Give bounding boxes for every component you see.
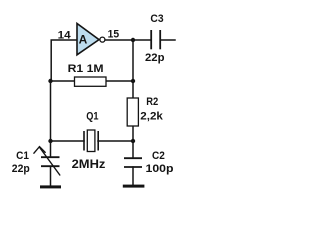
ground under C1: [40, 185, 61, 188]
wire right rail crystal node to C2 top plate: [132, 141, 134, 158]
svg-text:14: 14: [58, 30, 72, 42]
node dot output / C3 row: [131, 38, 135, 42]
inverter output bubble: [100, 37, 105, 42]
svg-text:15: 15: [108, 29, 120, 41]
svg-text:100p: 100p: [146, 163, 174, 175]
capacitor C1 plates (trimmer): [41, 157, 60, 166]
resistor R2 body: [127, 98, 138, 126]
wire C3 right plate to open end: [161, 39, 176, 41]
resistor R1 body: [75, 77, 107, 86]
svg-text:Q1: Q1: [86, 111, 98, 123]
svg-text:2MHz: 2MHz: [72, 157, 106, 171]
wire feedback R1 row (left rail to right rail): [51, 80, 134, 82]
svg-text:2,2k: 2,2k: [140, 111, 164, 123]
wire input top-left from left rail corner to inverter input: [51, 40, 77, 81]
wire C1 bottom stub to ground: [50, 167, 52, 186]
wire crystal row left (left rail to crystal left plate): [51, 140, 85, 142]
svg-text:A: A: [79, 33, 88, 47]
op-amp U1 inverter triangle: [77, 24, 105, 55]
wire right rail R2 bottom to crystal node: [132, 126, 134, 141]
svg-text:R2: R2: [146, 96, 158, 108]
svg-text:22p: 22p: [12, 163, 30, 175]
wire left rail lower (crystal node down to C1 top plate): [50, 141, 52, 157]
node dot left rail / R1: [48, 79, 52, 83]
capacitor C2 plates: [124, 158, 142, 167]
node dot right rail / R1: [131, 79, 135, 83]
svg-text:C2: C2: [152, 150, 165, 162]
crystal Q1: [84, 130, 98, 152]
ground under C2: [123, 185, 145, 188]
svg-text:C3: C3: [150, 13, 163, 25]
svg-text:C1: C1: [16, 150, 29, 162]
wire inverter output to C3 left plate: [105, 39, 151, 41]
capacitor C3 plates: [151, 30, 160, 49]
svg-text:R1 1M: R1 1M: [68, 63, 104, 75]
trimmer arrow through C1: [34, 147, 60, 175]
wire left rail upper (input node down to R1 junction): [50, 81, 52, 141]
wire C2 bottom stub to ground: [132, 167, 134, 185]
node dot left rail / crystal row: [48, 139, 52, 143]
node dot right rail / crystal row: [131, 139, 135, 143]
wire crystal row right (crystal right plate to right rail): [98, 140, 133, 142]
svg-text:22p: 22p: [145, 52, 165, 64]
wire right rail output node down to R2 top: [132, 40, 134, 98]
